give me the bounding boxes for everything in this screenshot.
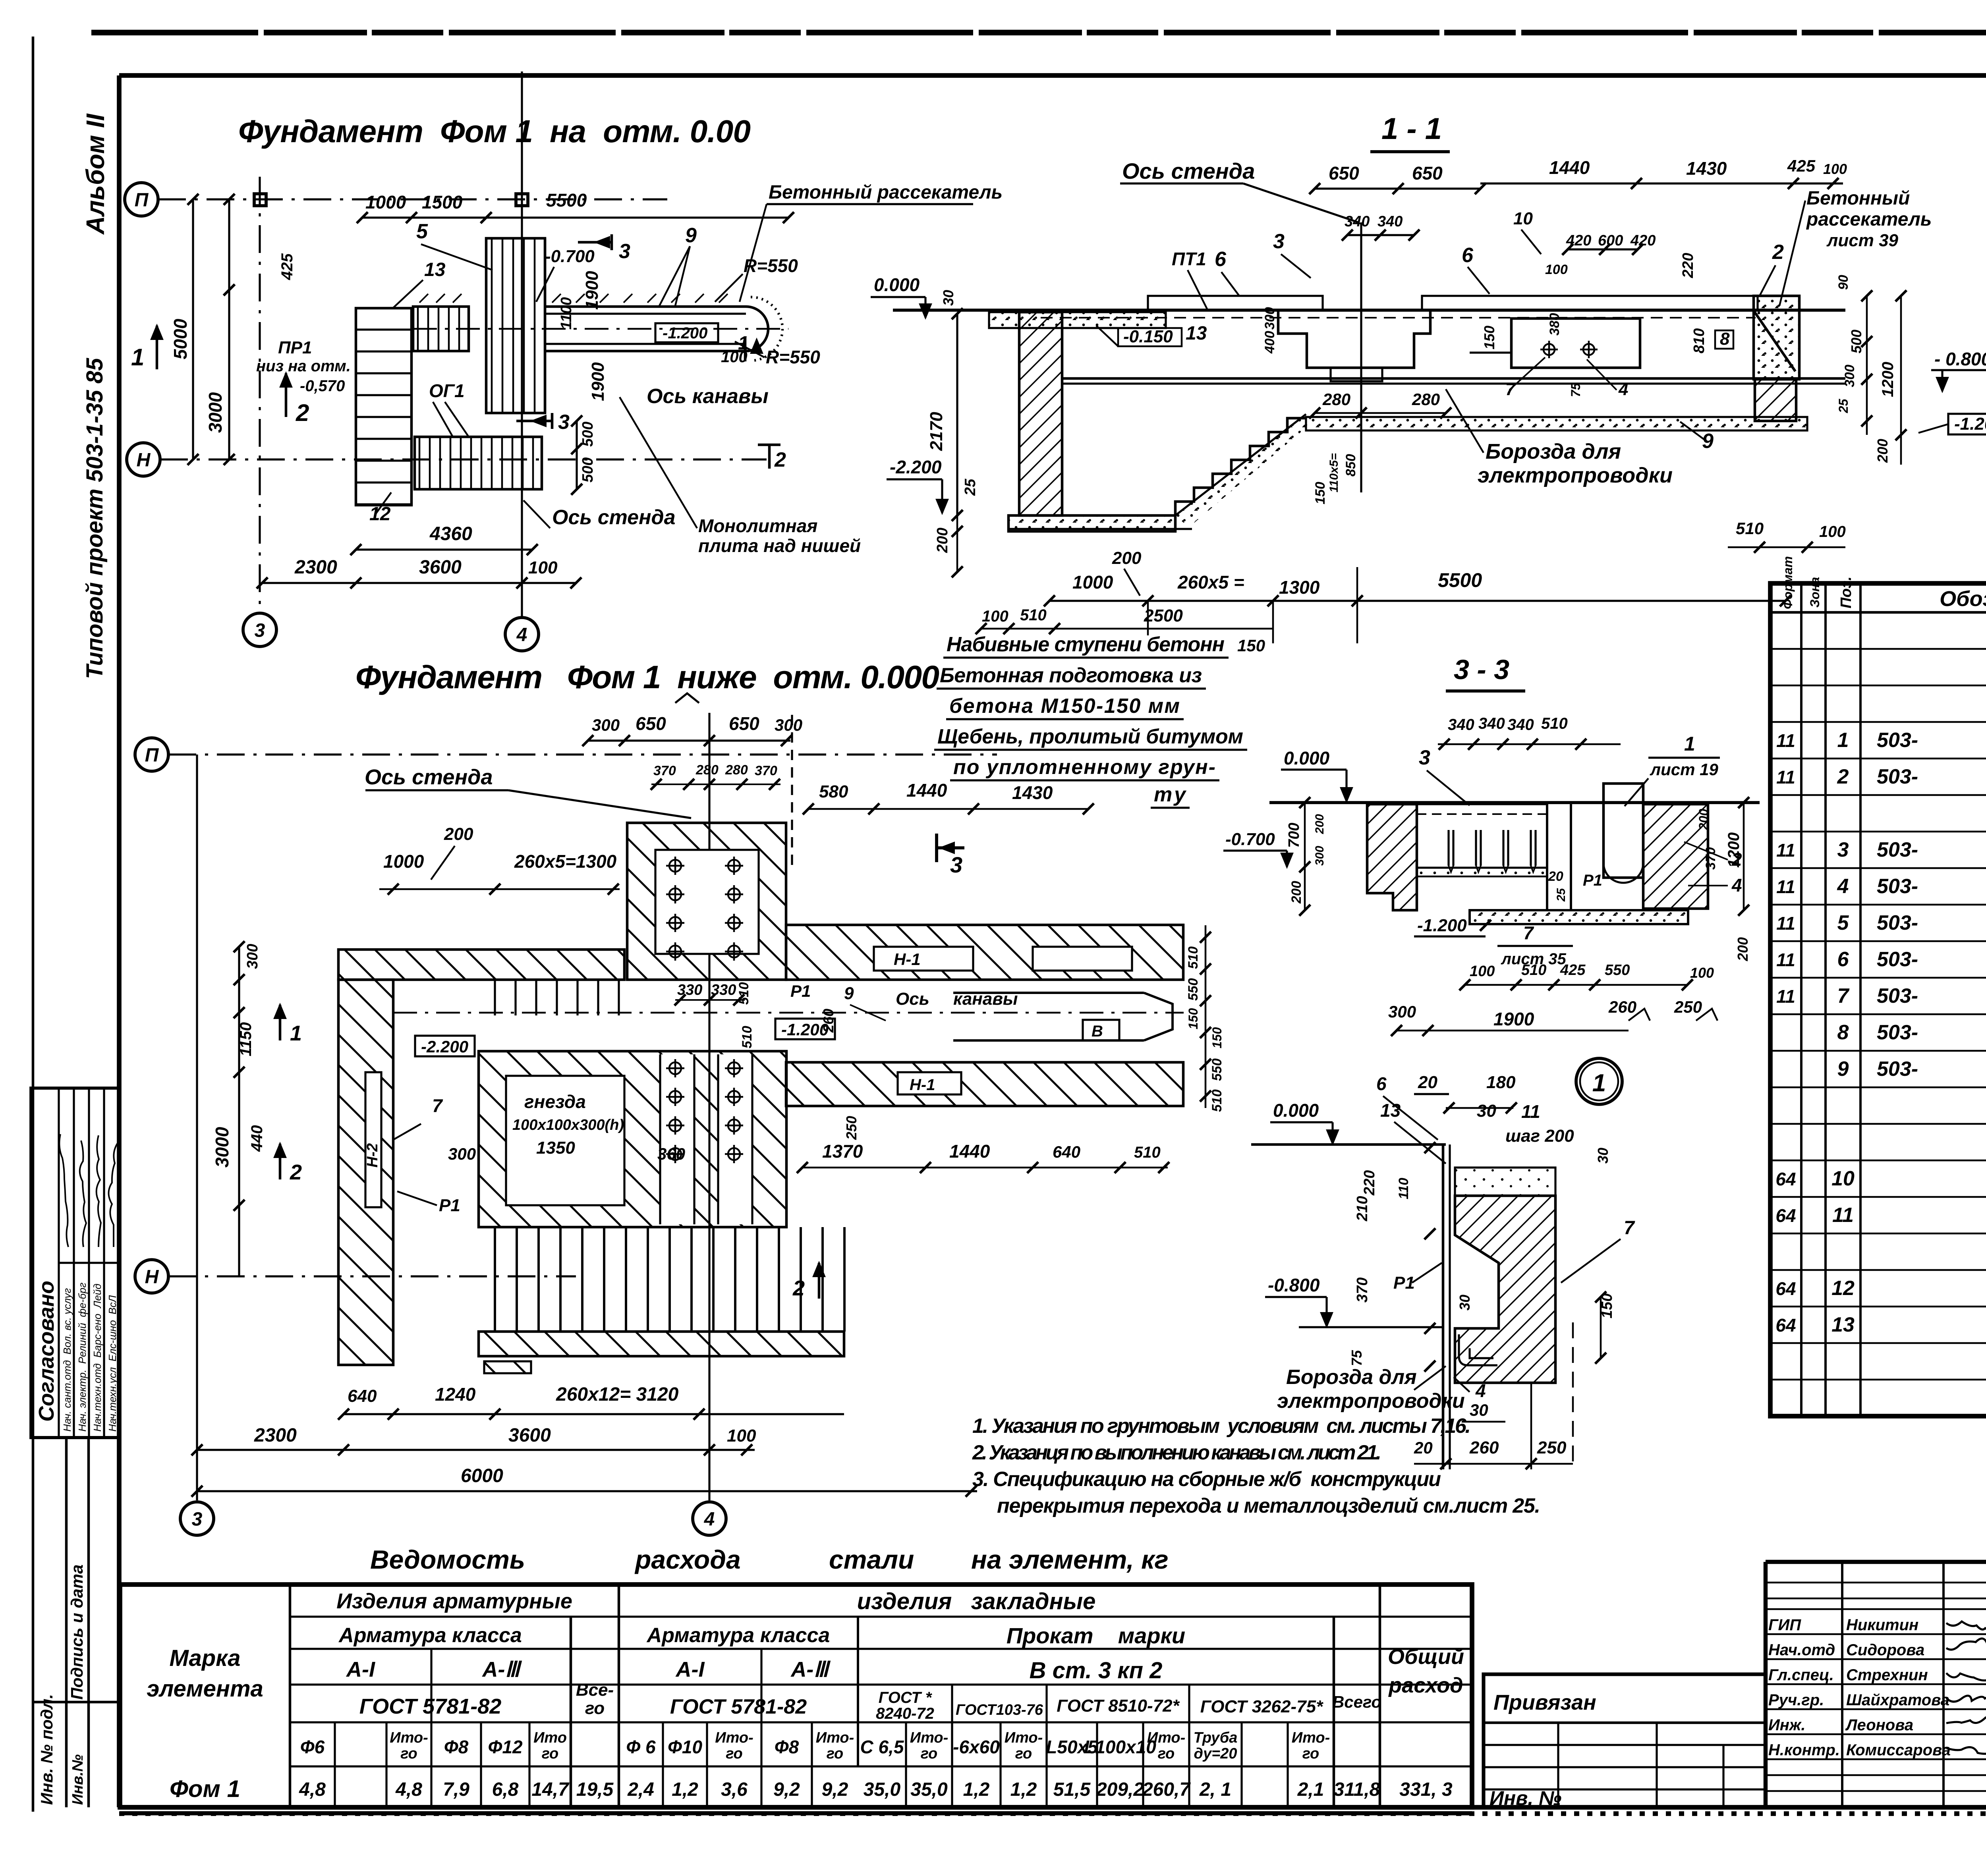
svg-text:300: 300 bbox=[1388, 1002, 1416, 1021]
left wall hatched (1-1) bbox=[1019, 312, 1062, 515]
svg-text:425: 425 bbox=[1560, 962, 1586, 979]
svg-text:изделия закладные: изделия закладные bbox=[857, 1588, 1096, 1614]
svg-text:Ф10: Ф10 bbox=[668, 1737, 702, 1757]
svg-text:330: 330 bbox=[677, 982, 702, 998]
svg-text:Ито-: Ито- bbox=[1005, 1729, 1043, 1746]
svg-text:Н: Н bbox=[137, 450, 151, 471]
-2.200 box (low plan) bbox=[415, 1036, 475, 1056]
axis 4 (low plan) bbox=[708, 713, 710, 1500]
svg-text:20: 20 bbox=[1414, 1438, 1433, 1457]
svg-text:11: 11 bbox=[1776, 876, 1795, 897]
svg-text:420: 420 bbox=[1566, 232, 1591, 249]
svg-text:ОГ1: ОГ1 bbox=[429, 380, 465, 401]
svg-text:Ф8: Ф8 bbox=[444, 1737, 469, 1757]
svg-text:Инв.№: Инв.№ bbox=[70, 1754, 86, 1805]
svg-text:1: 1 bbox=[131, 344, 144, 371]
svg-text:6: 6 bbox=[1837, 948, 1849, 971]
svg-text:260: 260 bbox=[1469, 1438, 1499, 1457]
svg-text:го: го bbox=[542, 1745, 559, 1762]
svg-text:-0,570: -0,570 bbox=[300, 377, 345, 395]
dims 100 510 2500 bbox=[981, 628, 1273, 630]
svg-text:6: 6 bbox=[1462, 244, 1474, 267]
svg-text:2. Указанця по выполнению кана: 2. Указанця по выполнению канавы см. лис… bbox=[972, 1441, 1381, 1464]
right rotated dims (3-3) bbox=[1743, 803, 1745, 910]
svg-text:1000: 1000 bbox=[1072, 572, 1113, 593]
svg-text:Марка: Марка bbox=[169, 1645, 240, 1671]
svg-text:Н-2: Н-2 bbox=[364, 1143, 381, 1168]
svg-text:260х5 =: 260х5 = bbox=[1177, 572, 1244, 593]
svg-text:Ось стенда: Ось стенда bbox=[552, 506, 676, 529]
svg-text:Ось стенда: Ось стенда bbox=[1122, 158, 1255, 183]
ticks joining plan arms bbox=[419, 294, 428, 303]
svg-text:150: 150 bbox=[1186, 1008, 1200, 1029]
svg-text:100х100х300(h): 100х100х300(h) bbox=[512, 1117, 624, 1133]
svg-text:Щебень, пролитый битумом: Щебень, пролитый битумом bbox=[937, 725, 1243, 748]
svg-text:370: 370 bbox=[755, 763, 777, 778]
svg-text:440: 440 bbox=[248, 1125, 266, 1152]
bottom dims 20 260 250 (detail) bbox=[1414, 1463, 1573, 1465]
svg-text:рассекатель: рассекатель bbox=[1806, 209, 1932, 230]
dim 6000 (low plan) bbox=[197, 1490, 977, 1492]
svg-text:11: 11 bbox=[1832, 1204, 1854, 1227]
svg-text:4: 4 bbox=[1475, 1380, 1486, 1401]
svg-text:300: 300 bbox=[448, 1145, 476, 1163]
section mark 1 right bbox=[744, 338, 747, 361]
svg-text:280: 280 bbox=[695, 762, 719, 778]
svg-text:550: 550 bbox=[1209, 1058, 1225, 1081]
section mark 3 upper bbox=[610, 234, 613, 250]
rect arm left (plan) bbox=[413, 307, 469, 351]
svg-text:11: 11 bbox=[1776, 913, 1795, 934]
svg-text:200: 200 bbox=[1112, 548, 1142, 568]
bottom dims 4360 / 2300 3600 100 bbox=[356, 548, 532, 550]
svg-text:Н.контр.: Н.контр. bbox=[1768, 1741, 1840, 1759]
svg-text:гнезда: гнезда bbox=[524, 1091, 586, 1112]
section marks 1,2 (low plan) bbox=[279, 1005, 282, 1040]
svg-text:260: 260 bbox=[1608, 998, 1636, 1016]
drawing frame bbox=[119, 73, 1986, 78]
svg-text:-1.200: -1.200 bbox=[1417, 916, 1467, 935]
dims 580 1440 (low plan right) bbox=[808, 808, 1088, 810]
svg-text:расход: расход bbox=[1388, 1673, 1463, 1697]
svg-text:1200: 1200 bbox=[1879, 362, 1897, 397]
svg-text:2300: 2300 bbox=[254, 1425, 297, 1446]
top wall band (low plan) bbox=[338, 950, 624, 980]
svg-text:-0.800: -0.800 bbox=[1268, 1275, 1320, 1295]
svg-text:9,2: 9,2 bbox=[773, 1779, 800, 1800]
svg-text:2170: 2170 bbox=[927, 412, 946, 451]
svg-text:5500: 5500 bbox=[546, 190, 587, 210]
svg-text:500: 500 bbox=[580, 457, 596, 483]
ground line (detail) bbox=[1251, 1143, 1446, 1146]
svg-text:Сидорова: Сидорова bbox=[1846, 1641, 1924, 1659]
axis N (top plan) bbox=[127, 443, 160, 476]
svg-text:Стрехнин: Стрехнин bbox=[1846, 1666, 1928, 1684]
svg-text:Ито: Ито bbox=[533, 1729, 567, 1746]
column marker squares on axis P bbox=[254, 194, 266, 206]
svg-text:425: 425 bbox=[278, 253, 296, 280]
bottom dim chain (1-1) bbox=[1049, 600, 1785, 602]
svg-text:220: 220 bbox=[1680, 253, 1696, 278]
svg-text:14,7: 14,7 bbox=[531, 1779, 570, 1800]
svg-text:510: 510 bbox=[1736, 519, 1764, 538]
svg-text:420: 420 bbox=[1630, 232, 1656, 249]
svg-text:Нач. сант.отд Вол. вс. услуг: Нач. сант.отд Вол. вс. услуг bbox=[61, 1288, 73, 1432]
svg-text:Борозда для: Борозда для bbox=[1486, 440, 1621, 463]
dims 1440 1430 425 100 bbox=[1480, 182, 1843, 184]
svg-text:90: 90 bbox=[1836, 275, 1851, 290]
svg-text:го: го bbox=[585, 1698, 605, 1718]
svg-text:6: 6 bbox=[1376, 1073, 1387, 1094]
svg-text:Н: Н bbox=[145, 1266, 159, 1287]
svg-text:1100: 1100 bbox=[558, 297, 575, 330]
left dims 300 1150 440 3000 (low plan) bbox=[238, 947, 240, 1276]
section 2 arrow (low plan right) bbox=[818, 1263, 821, 1299]
svg-text:7,9: 7,9 bbox=[443, 1779, 469, 1800]
svg-text:5: 5 bbox=[1837, 911, 1849, 934]
bottom slab (3-3) bbox=[1470, 910, 1688, 924]
title stamp bbox=[1766, 1560, 1986, 1564]
svg-text:Нач. электр. Релиний фе-брг: Нач. электр. Релиний фе-брг bbox=[76, 1283, 88, 1432]
left rotated dims (3-3) bbox=[1304, 803, 1306, 910]
svg-text:А-Ⅲ: А-Ⅲ bbox=[790, 1658, 831, 1681]
svg-text:Нач.отд: Нач.отд bbox=[1768, 1641, 1835, 1659]
svg-text:на элемент, кг: на элемент, кг bbox=[971, 1545, 1169, 1574]
svg-text:503-: 503- bbox=[1877, 911, 1918, 934]
svg-text:2: 2 bbox=[1731, 849, 1742, 870]
svg-text:Ф12: Ф12 bbox=[488, 1737, 522, 1757]
svg-text:го: го bbox=[921, 1745, 938, 1762]
svg-text:L100х10: L100х10 bbox=[1084, 1737, 1156, 1757]
left hatched block (3-3) bbox=[1367, 804, 1417, 910]
svg-text:580: 580 bbox=[819, 782, 848, 801]
svg-text:650: 650 bbox=[1412, 163, 1443, 183]
svg-text:9: 9 bbox=[1837, 1058, 1849, 1081]
svg-text:Ито-: Ито- bbox=[1292, 1729, 1330, 1746]
svg-text:2: 2 bbox=[792, 1276, 805, 1300]
channel axis (low plan) bbox=[393, 1012, 1184, 1014]
svg-text:550: 550 bbox=[1186, 978, 1201, 1001]
svg-text:1240: 1240 bbox=[435, 1384, 476, 1405]
svg-text:20: 20 bbox=[1418, 1073, 1437, 1092]
svg-text:30: 30 bbox=[1595, 1148, 1611, 1164]
svg-text:7: 7 bbox=[1837, 984, 1850, 1007]
svg-text:150: 150 bbox=[1210, 1027, 1224, 1048]
svg-text:150: 150 bbox=[1237, 636, 1265, 655]
svg-text:2,1: 2,1 bbox=[1297, 1779, 1324, 1800]
svg-text:Ито-: Ито- bbox=[715, 1729, 753, 1746]
svg-text:П: П bbox=[135, 189, 149, 210]
right slot and hatched block (3-3) bbox=[1603, 784, 1643, 878]
axis 3 (low plan) bbox=[196, 755, 198, 1500]
ground line (3-3) bbox=[1269, 801, 1760, 804]
svg-text:503-: 503- bbox=[1877, 875, 1918, 898]
svg-text:3: 3 bbox=[619, 240, 630, 263]
svg-text:Ось канавы: Ось канавы bbox=[647, 385, 769, 408]
svg-text:360: 360 bbox=[657, 1145, 685, 1163]
svg-text:Согласовано: Согласовано bbox=[35, 1281, 58, 1422]
detail circle 1 bbox=[1576, 1058, 1622, 1104]
svg-text:А-Ⅲ: А-Ⅲ bbox=[481, 1658, 522, 1681]
svg-text:1900: 1900 bbox=[582, 271, 602, 310]
svg-text:1. Указания по грунтовым усло: 1. Указания по грунтовым условиям см. ли… bbox=[972, 1415, 1471, 1438]
svg-text:го: го bbox=[726, 1745, 743, 1762]
elbow conduit (detail) bbox=[1454, 1342, 1581, 1371]
svg-text:640: 640 bbox=[1053, 1143, 1080, 1161]
svg-text:Шайхратова: Шайхратова bbox=[1846, 1691, 1949, 1709]
svg-text:го: го bbox=[1302, 1745, 1319, 1762]
mid ladder (low plan) bbox=[494, 980, 496, 1015]
svg-text:11: 11 bbox=[1521, 1101, 1540, 1122]
svg-text:1,2: 1,2 bbox=[1010, 1779, 1037, 1800]
channel floor line (1-1) bbox=[1062, 377, 1845, 380]
svg-text:7: 7 bbox=[432, 1095, 443, 1116]
svg-text:19,5: 19,5 bbox=[576, 1779, 614, 1800]
svg-text:9,2: 9,2 bbox=[822, 1779, 848, 1800]
svg-text:лист 19: лист 19 bbox=[1650, 760, 1719, 779]
svg-text:-0.150: -0.150 bbox=[1123, 327, 1173, 346]
svg-text:340: 340 bbox=[1478, 715, 1505, 732]
svg-text:Подпись и дата: Подпись и дата bbox=[68, 1565, 86, 1700]
section mark 2 (plan, left) bbox=[285, 373, 288, 417]
svg-text:Нач.техн.отд Барс-ено Лейд: Нач.техн.отд Барс-ено Лейд bbox=[91, 1283, 103, 1432]
svg-text:209,2: 209,2 bbox=[1096, 1779, 1144, 1800]
dims 340 340 bbox=[1347, 234, 1414, 236]
specification table bbox=[1770, 583, 1986, 1416]
svg-text:425: 425 bbox=[1787, 156, 1816, 175]
dims 2300 3600 100 (low plan) bbox=[197, 1449, 755, 1451]
svg-text:Бетонная подготовка из: Бетонная подготовка из bbox=[940, 664, 1202, 687]
svg-text:200: 200 bbox=[1289, 881, 1304, 904]
svg-text:3600: 3600 bbox=[419, 557, 462, 578]
svg-text:11: 11 bbox=[1776, 840, 1795, 861]
-1.200 box in channel bbox=[655, 323, 718, 342]
svg-text:-0.700: -0.700 bbox=[1225, 830, 1275, 849]
svg-text:150: 150 bbox=[1481, 326, 1497, 349]
svg-text:1350: 1350 bbox=[536, 1138, 575, 1158]
svg-text:10: 10 bbox=[1513, 209, 1533, 228]
svg-text:4: 4 bbox=[516, 624, 527, 645]
svg-text:-1.200: -1.200 bbox=[1954, 414, 1986, 434]
svg-text:503-: 503- bbox=[1877, 948, 1918, 971]
svg-text:Типовой проект 503-1-35 85: Типовой проект 503-1-35 85 bbox=[82, 358, 108, 679]
svg-text:3000: 3000 bbox=[212, 1127, 232, 1168]
svg-text:Фундамент Фом 1 на отм. 0.0: Фундамент Фом 1 на отм. 0.00 bbox=[238, 114, 751, 149]
svg-text:3000: 3000 bbox=[205, 392, 226, 433]
section 3 arrow (low plan) bbox=[935, 834, 938, 862]
svg-text:Ито-: Ито- bbox=[390, 1729, 428, 1746]
svg-text:3,6: 3,6 bbox=[721, 1779, 748, 1800]
svg-text:9: 9 bbox=[685, 224, 697, 247]
svg-text:64: 64 bbox=[1775, 1278, 1796, 1299]
svg-text:331, 3: 331, 3 bbox=[1399, 1779, 1453, 1800]
left wall strip (low plan) bbox=[338, 980, 393, 1365]
svg-text:340: 340 bbox=[1448, 716, 1474, 733]
svg-text:370: 370 bbox=[1354, 1278, 1371, 1303]
svg-text:Бетонный рассекатель: Бетонный рассекатель bbox=[769, 182, 1003, 203]
svg-text:0.000: 0.000 bbox=[1284, 748, 1330, 768]
svg-text:30: 30 bbox=[1470, 1401, 1488, 1419]
svg-text:64: 64 bbox=[1775, 1169, 1796, 1189]
privyazan mini table bbox=[1484, 1674, 1766, 1807]
svg-text:плита над нишей: плита над нишей bbox=[698, 535, 861, 556]
svg-text:510: 510 bbox=[1209, 1089, 1225, 1112]
svg-text:Ф 6: Ф 6 bbox=[626, 1737, 656, 1757]
svg-text:3: 3 bbox=[1419, 746, 1430, 769]
svg-text:100: 100 bbox=[528, 558, 558, 577]
svg-text:13: 13 bbox=[1186, 323, 1207, 344]
svg-text:300: 300 bbox=[244, 944, 261, 969]
lower pad OG1 (plan) bbox=[415, 437, 542, 489]
svg-text:5500: 5500 bbox=[1438, 569, 1482, 591]
small dims 420 600 420 100 bbox=[1568, 248, 1638, 250]
signature table bbox=[1764, 1562, 1768, 1807]
svg-text:500: 500 bbox=[1848, 330, 1864, 353]
svg-text:260х12= 3120: 260х12= 3120 bbox=[556, 1384, 679, 1405]
svg-text:503-: 503- bbox=[1877, 984, 1918, 1007]
hatched block (detail) bbox=[1455, 1196, 1555, 1383]
svg-text:-2.200: -2.200 bbox=[421, 1037, 468, 1056]
svg-text:260х5=1300: 260х5=1300 bbox=[514, 851, 617, 872]
svg-text:Прокат марки: Прокат марки bbox=[1007, 1623, 1185, 1648]
svg-text:200: 200 bbox=[934, 528, 951, 553]
svg-text:А-I: А-I bbox=[675, 1658, 705, 1681]
svg-text:Борозда для: Борозда для bbox=[1286, 1366, 1417, 1389]
svg-text:1900: 1900 bbox=[588, 362, 608, 401]
svg-text:200: 200 bbox=[444, 824, 473, 844]
svg-text:280: 280 bbox=[725, 762, 748, 778]
svg-text:260,7: 260,7 bbox=[1142, 1779, 1191, 1800]
axis N (low plan) bbox=[135, 1260, 168, 1293]
right band upper (low plan) bbox=[786, 925, 1183, 980]
long base slab (1-1) bbox=[1306, 417, 1807, 430]
svg-text:А-I: А-I bbox=[346, 1658, 375, 1681]
svg-text:- 0.800: - 0.800 bbox=[1934, 349, 1986, 369]
svg-text:Монолитная: Монолитная bbox=[698, 515, 817, 536]
svg-text:250: 250 bbox=[843, 1116, 860, 1140]
bottom strip (low plan) bbox=[479, 1332, 844, 1356]
svg-text:Ито-: Ито- bbox=[1147, 1729, 1185, 1746]
svg-text:220: 220 bbox=[1361, 1170, 1378, 1196]
svg-text:200: 200 bbox=[1696, 809, 1711, 830]
section mark T2 right bbox=[758, 444, 780, 446]
svg-text:5: 5 bbox=[416, 220, 428, 243]
svg-text:300: 300 bbox=[592, 716, 620, 734]
-1.200 box (low plan) bbox=[775, 1019, 835, 1039]
svg-text:4,8: 4,8 bbox=[395, 1779, 422, 1800]
svg-text:25: 25 bbox=[1836, 398, 1851, 413]
svg-text:Альбом II: Альбом II bbox=[81, 113, 110, 235]
svg-text:1: 1 bbox=[738, 333, 749, 354]
svg-text:Ф6: Ф6 bbox=[300, 1737, 325, 1757]
svg-text:перекрытия перехода и металлоц: перекрытия перехода и металлоцзделий см.… bbox=[997, 1494, 1540, 1517]
svg-text:го: го bbox=[827, 1745, 844, 1762]
svg-text:250: 250 bbox=[1674, 998, 1702, 1016]
svg-text:650: 650 bbox=[636, 713, 666, 734]
svg-text:13: 13 bbox=[1380, 1100, 1401, 1121]
svg-text:7: 7 bbox=[1523, 923, 1534, 943]
svg-text:700: 700 bbox=[1286, 823, 1302, 848]
svg-text:го: го bbox=[1015, 1745, 1032, 1762]
axis 4 vertical (top plan) bbox=[521, 71, 523, 616]
svg-text:Н-1: Н-1 bbox=[910, 1076, 935, 1094]
svg-text:100: 100 bbox=[1470, 963, 1495, 980]
svg-text:Н-1: Н-1 bbox=[894, 950, 921, 969]
svg-text:8: 8 bbox=[1720, 329, 1730, 349]
left margin thin line bbox=[32, 37, 35, 1812]
svg-text:Ито-: Ито- bbox=[910, 1729, 948, 1746]
svg-text:Р1: Р1 bbox=[439, 1196, 460, 1215]
svg-text:503-: 503- bbox=[1877, 838, 1918, 861]
svg-text:ту: ту bbox=[1154, 783, 1187, 806]
svg-text:650: 650 bbox=[1329, 163, 1359, 183]
svg-text:Р1: Р1 bbox=[790, 982, 811, 1000]
svg-text:В ст. 3 кп 2: В ст. 3 кп 2 bbox=[1030, 1658, 1163, 1683]
channel end funnel (low plan) bbox=[1144, 993, 1173, 1040]
svg-text:110х5=: 110х5= bbox=[1327, 453, 1341, 492]
svg-text:400: 400 bbox=[1262, 331, 1277, 354]
svg-text:1430: 1430 bbox=[1012, 782, 1053, 803]
svg-text:Ось: Ось bbox=[896, 989, 929, 1009]
svg-text:12: 12 bbox=[1831, 1277, 1855, 1300]
svg-text:ГИП: ГИП bbox=[1768, 1616, 1801, 1634]
svg-text:210: 210 bbox=[1354, 1196, 1371, 1222]
svg-text:3: 3 bbox=[255, 620, 265, 641]
svg-text:1,2: 1,2 bbox=[963, 1779, 990, 1800]
svg-text:Леонова: Леонова bbox=[1845, 1716, 1913, 1734]
svg-text:260: 260 bbox=[820, 1009, 837, 1033]
svg-text:6000: 6000 bbox=[461, 1465, 503, 1486]
svg-text:510: 510 bbox=[1186, 946, 1201, 969]
svg-text:30: 30 bbox=[1457, 1295, 1473, 1310]
svg-text:ГОСТ 3262-75*: ГОСТ 3262-75* bbox=[1200, 1697, 1323, 1716]
lower sidebar boxes bbox=[31, 1436, 119, 1439]
svg-text:Ведомость: Ведомость bbox=[370, 1545, 525, 1574]
svg-text:6,8: 6,8 bbox=[492, 1779, 519, 1800]
svg-text:Изделия арматурные: Изделия арматурные bbox=[336, 1589, 572, 1613]
svg-text:ГОСТ 5781-82: ГОСТ 5781-82 bbox=[670, 1695, 807, 1718]
svg-text:5000: 5000 bbox=[170, 318, 191, 359]
svg-text:75: 75 bbox=[1569, 382, 1583, 397]
svg-text:Ито-: Ито- bbox=[816, 1729, 854, 1746]
svg-text:380: 380 bbox=[1547, 313, 1562, 336]
svg-text:340: 340 bbox=[1377, 213, 1403, 230]
svg-text:Все-: Все- bbox=[576, 1680, 614, 1700]
svg-text:640: 640 bbox=[348, 1386, 377, 1406]
central channel (3-3) bbox=[1546, 804, 1548, 910]
svg-text:1000: 1000 bbox=[383, 851, 424, 872]
svg-text:Р1: Р1 bbox=[1583, 872, 1602, 889]
svg-text:1440: 1440 bbox=[949, 1141, 990, 1162]
svg-text:Арматура класса: Арматура класса bbox=[338, 1624, 522, 1647]
svg-text:510: 510 bbox=[740, 1026, 755, 1048]
mid pedestal (1-1) bbox=[1278, 310, 1430, 368]
svg-text:150: 150 bbox=[1313, 482, 1328, 504]
channel axis bbox=[413, 328, 788, 330]
svg-text:510: 510 bbox=[1541, 715, 1568, 732]
svg-text:1000: 1000 bbox=[365, 192, 406, 212]
svg-text:200: 200 bbox=[1874, 439, 1891, 463]
svg-text:1,2: 1,2 bbox=[672, 1779, 698, 1800]
svg-text:340: 340 bbox=[1345, 213, 1370, 230]
svg-text:13: 13 bbox=[424, 259, 446, 280]
svg-text:по уплотненному грун-: по уплотненному грун- bbox=[953, 756, 1215, 779]
svg-text:4: 4 bbox=[1618, 380, 1628, 399]
svg-text:электропроводки: электропроводки bbox=[1478, 463, 1673, 487]
svg-text:-0.700: -0.700 bbox=[545, 247, 595, 266]
svg-text:Нач.техн.усл Елс-шно ВсЛ: Нач.техн.усл Елс-шно ВсЛ bbox=[106, 1295, 118, 1432]
svg-text:600: 600 bbox=[1598, 232, 1623, 249]
